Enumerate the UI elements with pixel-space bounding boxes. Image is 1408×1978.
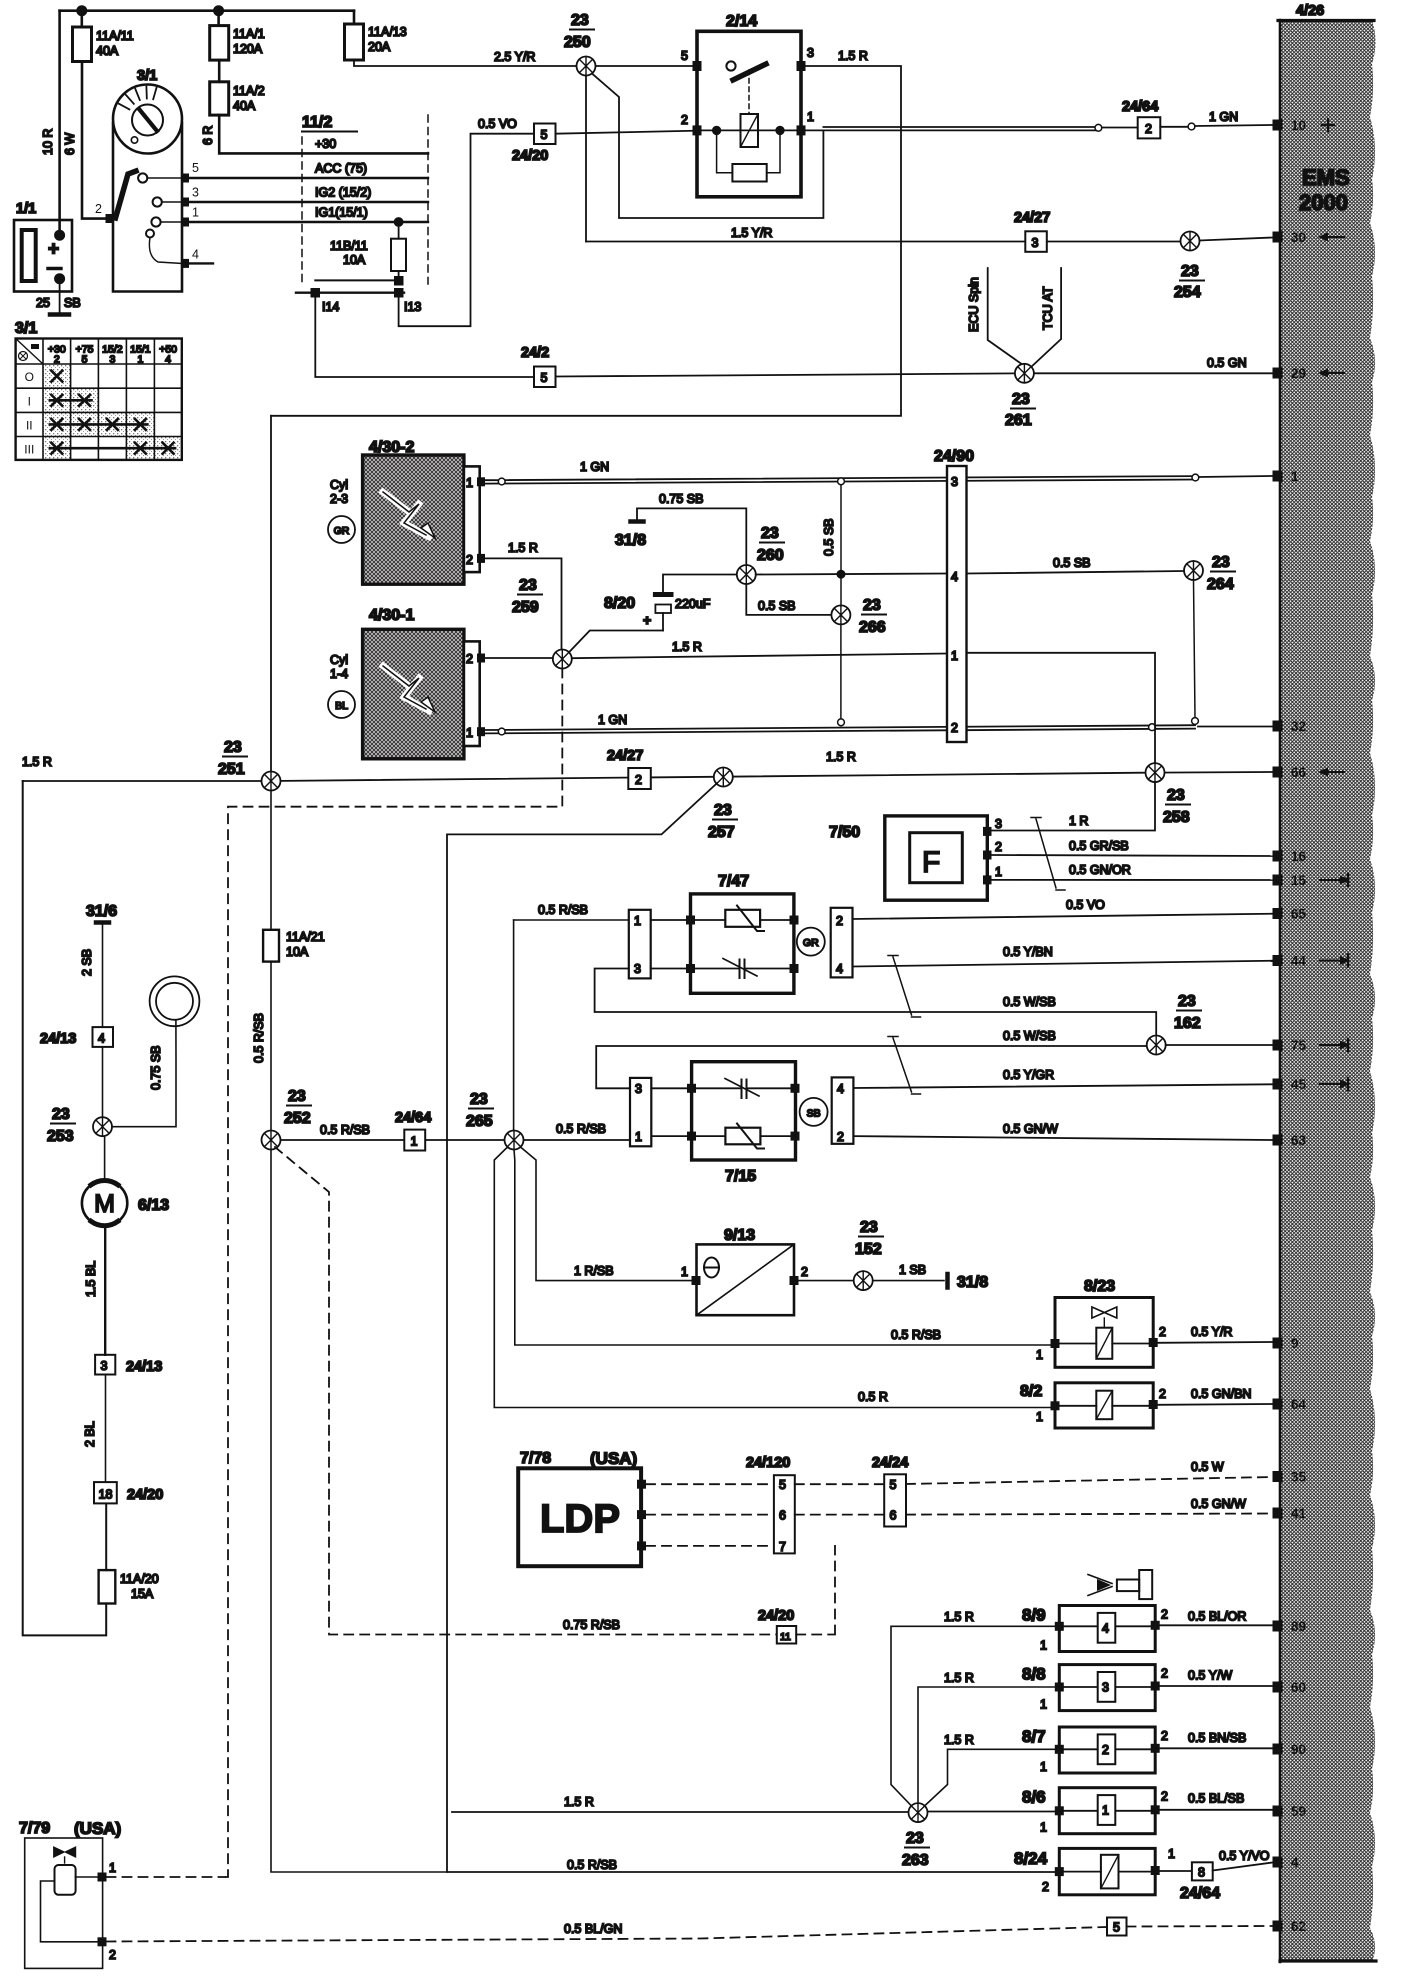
svg-text:10A: 10A (343, 253, 366, 267)
svg-text:11/2: 11/2 (302, 114, 332, 131)
svg-text:23: 23 (906, 1830, 924, 1847)
dashed wires LDP to 24/120 (646, 1484, 774, 1546)
svg-text:6/13: 6/13 (138, 1197, 169, 1214)
svg-text:0.5 BL/GN: 0.5 BL/GN (564, 1922, 622, 1936)
svg-text:4: 4 (165, 354, 171, 366)
capacitor symbol in 7/15 (696, 1087, 791, 1089)
svg-text:62: 62 (1291, 1919, 1306, 1934)
svg-text:0.75 R/SB: 0.75 R/SB (563, 1618, 620, 1632)
fan wires from splice 265 down (494, 1147, 1055, 1408)
svg-text:23: 23 (1212, 554, 1230, 571)
wire 0.5 Y/GR 7/15 pin 4 to ECU pin 45 (853, 1084, 1272, 1088)
splice 23/258 (1146, 763, 1165, 782)
svg-text:23: 23 (1181, 263, 1199, 280)
svg-text:23: 23 (52, 1106, 70, 1123)
svg-text:1-4: 1-4 (330, 667, 348, 681)
svg-text:24/120: 24/120 (746, 1455, 790, 1471)
svg-text:41: 41 (1291, 1506, 1307, 1521)
svg-text:11B/11: 11B/11 (330, 239, 368, 253)
svg-text:8/6: 8/6 (1022, 1788, 1046, 1807)
svg-text:1: 1 (634, 914, 641, 928)
wire relay pin 1 to coil loop from splice 250 (592, 74, 823, 219)
fuse 11A/11 40A (81, 11, 84, 27)
svg-text:0.5 R/SB: 0.5 R/SB (567, 1858, 617, 1872)
svg-text:23: 23 (761, 525, 779, 542)
svg-text:1 GN: 1 GN (598, 713, 627, 727)
splice 23/259 (553, 650, 572, 669)
junction dots on bus (77, 6, 86, 15)
svg-text:1.5 R: 1.5 R (672, 640, 702, 654)
svg-text:18: 18 (99, 1488, 113, 1502)
svg-text:23: 23 (224, 739, 242, 756)
svg-text:2: 2 (995, 840, 1002, 854)
svg-text:258: 258 (1163, 809, 1190, 826)
svg-text:8: 8 (1198, 1866, 1205, 1880)
svg-text:90: 90 (1291, 1742, 1306, 1757)
svg-text:O: O (25, 370, 34, 384)
wire 1.5 R / fuel pump feed: splice 251 left loop down to fuse 11A/20 (23, 781, 107, 1635)
svg-text:0.5 GN/W: 0.5 GN/W (1191, 1497, 1246, 1511)
splice 23/253 (93, 1117, 112, 1136)
svg-text:2: 2 (1161, 1729, 1168, 1743)
svg-text:10A: 10A (286, 945, 309, 959)
svg-text:1: 1 (1040, 1821, 1047, 1835)
svg-text:265: 265 (466, 1113, 493, 1130)
svg-text:4: 4 (1102, 1622, 1109, 1636)
fuse 11A/1 120A (217, 11, 220, 26)
svg-text:32: 32 (1291, 719, 1306, 734)
wire 6 W fuse to ignition switch pin 2 (82, 62, 107, 219)
svg-text:2: 2 (466, 652, 473, 666)
svg-text:0.75 SB: 0.75 SB (659, 492, 703, 506)
svg-text:250: 250 (564, 34, 591, 51)
svg-text:7/79: 7/79 (19, 1820, 50, 1837)
splice 23/257 (714, 768, 733, 787)
svg-text:0.5 R/SB: 0.5 R/SB (252, 1013, 266, 1063)
svg-text:23: 23 (714, 802, 732, 819)
svg-text:0.5 Y/R: 0.5 Y/R (1191, 1325, 1232, 1339)
svg-text:(USA): (USA) (590, 1449, 637, 1468)
wire 1 SB 9/13 pin 2 to ground 31/8 via splice 23/152 (799, 1280, 945, 1282)
svg-text:2: 2 (95, 202, 102, 216)
wire 2.5 Y/R fuse 11A/13 to splice 23/250 (354, 60, 577, 66)
wire 1.5 R coil 4/30-2 pin 2 to splice 23/259 (485, 558, 562, 649)
fuse 11A/21 10A on 0.5 R/SB drop (270, 791, 272, 930)
svg-text:1 SB: 1 SB (899, 1263, 926, 1277)
capacitor symbol in 7/47 (695, 968, 790, 970)
svg-text:1.5 R: 1.5 R (944, 1671, 974, 1685)
svg-text:4: 4 (951, 570, 958, 584)
wire 0.5 Y/BN 7/47 pin 4 to ECU pin 44 (853, 961, 1273, 967)
svg-text:5: 5 (681, 49, 688, 63)
dashed ignition pulse net from splice 23/259 to 7/79 pin 1 (225, 669, 563, 1878)
wire 0.5 R/SB from 23/257 down to 7/47 pin 1 and on to 8/24 (447, 783, 1055, 1872)
connector 24/13 pin 3 box (95, 1355, 115, 1375)
svg-text:0.5 SB: 0.5 SB (758, 599, 796, 613)
svg-text:SB: SB (64, 296, 81, 310)
svg-text:40A: 40A (96, 44, 119, 58)
svg-text:23: 23 (860, 1219, 878, 1236)
svg-text:31/8: 31/8 (615, 532, 646, 549)
svg-text:BL: BL (335, 700, 348, 712)
wire 1.5 R splice 259 to 24/90 pin 1 (572, 654, 947, 659)
svg-text:5: 5 (779, 1478, 786, 1492)
svg-text:1: 1 (1168, 1847, 1175, 1861)
wire splice 250 to relay pin 5 (596, 65, 693, 67)
svg-text:0.5 BL/SB: 0.5 BL/SB (1188, 1792, 1244, 1806)
svg-text:2: 2 (635, 773, 642, 787)
svg-text:1: 1 (635, 1130, 642, 1144)
ECU control module 4/26 EMS 2000 hatched band (1280, 20, 1376, 1962)
svg-text:1 R: 1 R (1069, 814, 1088, 828)
connector 24/13 pin 4 box (93, 1027, 114, 1047)
svg-text:2: 2 (837, 1130, 844, 1144)
svg-text:1.5 R: 1.5 R (826, 750, 856, 764)
connector 24/64 pin 8 box and wire 0.5 Y/VO to ECU pin 4 (1160, 1870, 1192, 1872)
svg-text:11A/2: 11A/2 (233, 84, 265, 98)
svg-text:0.5 R/SB: 0.5 R/SB (538, 903, 588, 917)
svg-text:EMS: EMS (1302, 165, 1350, 190)
svg-text:0.5 W: 0.5 W (1191, 1460, 1224, 1474)
svg-text:5: 5 (82, 354, 88, 366)
svg-text:24/20: 24/20 (512, 148, 548, 164)
dashed 0.75 R/SB from splice 23/252 to 24/20 pin 11 (275, 1147, 777, 1635)
svg-text:63: 63 (1291, 1133, 1307, 1148)
svg-text:IG2 (15/2): IG2 (15/2) (315, 186, 371, 200)
ECU pin terminals on band edge (1273, 118, 1351, 1934)
0.5 SB shield drain vertical (840, 485, 842, 719)
svg-text:TCU AT: TCU AT (1041, 286, 1055, 330)
svg-text:30: 30 (1291, 230, 1306, 245)
wire 1.5 R vertical from relay loop down to splice 23/251 (270, 416, 272, 772)
svg-text:4/26: 4/26 (1296, 3, 1324, 19)
svg-text:64: 64 (1291, 1397, 1307, 1412)
svg-text:3: 3 (807, 46, 814, 60)
dashed wire 0.5 W to ECU pin 35 (906, 1477, 1273, 1484)
svg-text:4: 4 (1291, 1855, 1299, 1870)
svg-text:6: 6 (890, 1509, 897, 1523)
svg-text:11A/20: 11A/20 (120, 1572, 159, 1586)
svg-text:Cyl: Cyl (330, 478, 348, 492)
svg-text:1.5 R: 1.5 R (944, 1733, 974, 1747)
svg-text:4: 4 (836, 962, 843, 976)
svg-text:152: 152 (855, 1241, 882, 1258)
svg-text:0.5 Y/GR: 0.5 Y/GR (1003, 1068, 1054, 1082)
svg-text:5: 5 (192, 161, 199, 175)
svg-text:0.5 Y/BN: 0.5 Y/BN (1003, 945, 1053, 959)
svg-text:1: 1 (1102, 1804, 1109, 1818)
svg-text:40A: 40A (233, 99, 256, 113)
svg-text:7: 7 (779, 1540, 786, 1554)
svg-text:162: 162 (1174, 1015, 1201, 1032)
svg-text:0.5 GN/W: 0.5 GN/W (1003, 1122, 1058, 1136)
thermistor symbol in 7/47 (695, 919, 790, 921)
fuse 11A/13 20A (353, 11, 356, 24)
connector 24/20 pin 11 box (777, 1626, 796, 1644)
svg-text:3: 3 (635, 1082, 642, 1096)
svg-text:IG1(15/1): IG1(15/1) (315, 206, 368, 220)
connector 24/90 (947, 466, 967, 742)
svg-text:1.5 Y/R: 1.5 Y/R (731, 226, 772, 240)
top supply bus wire (60, 9, 354, 12)
svg-text:23: 23 (1178, 993, 1196, 1010)
svg-text:24/64: 24/64 (395, 1110, 431, 1126)
svg-text:2: 2 (1159, 1387, 1166, 1401)
connector 24/20 pin 18 box (94, 1482, 117, 1503)
svg-text:266: 266 (859, 619, 886, 636)
wire 0.5 W/SB 7/47 pin 3 loop to splice 23/162 (595, 969, 1157, 1036)
svg-text:7/15: 7/15 (725, 1168, 756, 1185)
relay resistor (732, 164, 766, 182)
svg-text:2/14: 2/14 (726, 13, 757, 30)
splice 23/264 drop to GN line (1184, 561, 1203, 580)
svg-text:1: 1 (681, 1265, 688, 1279)
svg-text:Cyl: Cyl (330, 653, 348, 667)
connector 24/2 pin 5 box (534, 367, 556, 388)
wire 0.5 GN/W 7/15 pin 2 to ECU pin 63 (853, 1136, 1272, 1140)
svg-text:2: 2 (1161, 1790, 1168, 1804)
svg-text:2: 2 (1161, 1667, 1168, 1681)
svg-text:31/6: 31/6 (86, 903, 117, 920)
wire 0.5 GN : I14 line through 24/2 to splice 23/261 and ECU pin 29 (556, 373, 1273, 376)
crossing slash mark (888, 956, 921, 1018)
motor M 6/13 (82, 1180, 127, 1225)
splice 23/260 (737, 565, 756, 584)
svg-text:1: 1 (411, 1135, 418, 1149)
svg-text:M: M (94, 1190, 115, 1218)
svg-text:35: 35 (1291, 1470, 1307, 1485)
svg-text:0.5 W/SB: 0.5 W/SB (1003, 1029, 1056, 1043)
fan from splice 263 up to injector feeds (891, 1626, 1059, 1806)
svg-text:44: 44 (1291, 954, 1307, 969)
svg-text:24/13: 24/13 (126, 1359, 162, 1375)
svg-text:252: 252 (284, 1110, 311, 1127)
svg-text:1: 1 (807, 110, 814, 124)
svg-text:8/2: 8/2 (1020, 1383, 1042, 1400)
relay switch symbol (726, 61, 735, 70)
svg-text:15: 15 (1291, 873, 1307, 888)
switch output wires ACC IG2 IG1 (189, 177, 428, 179)
svg-text:II: II (26, 419, 33, 433)
svg-text:251: 251 (218, 761, 245, 778)
wire battery plus to bus 10 R (58, 11, 61, 233)
svg-text:0.5 R/SB: 0.5 R/SB (320, 1123, 370, 1137)
crossing slash mark (1031, 818, 1065, 891)
svg-text:1: 1 (192, 206, 199, 220)
svg-text:8/24: 8/24 (1014, 1849, 1048, 1868)
svg-text:10 R: 10 R (41, 129, 55, 155)
svg-text:120A: 120A (233, 42, 263, 56)
wire 1.5 Y/R splice 250 down to Y/R bus (585, 76, 587, 242)
svg-text:3: 3 (1032, 236, 1039, 250)
svg-text:F: F (922, 846, 940, 879)
svg-text:4/30-1: 4/30-1 (369, 607, 414, 624)
svg-text:260: 260 (757, 547, 784, 564)
wire 1 R splice 258 to 7/50 pin 3 (991, 782, 1155, 830)
svg-text:1: 1 (1036, 1348, 1043, 1362)
wire battery minus to ground, 25 SB (59, 279, 61, 314)
svg-text:0.5 R/SB: 0.5 R/SB (556, 1122, 606, 1136)
connector 24/64 pin 1 box (404, 1130, 425, 1151)
svg-text:0.5 Y/VO: 0.5 Y/VO (1219, 1849, 1270, 1863)
svg-text:10: 10 (1291, 118, 1306, 133)
svg-text:23: 23 (863, 597, 881, 614)
connector 24/120 (774, 1475, 795, 1553)
fuse 11B/11 10A (398, 222, 400, 239)
wire 0.5 R/SB from splice 23/265 riser to 7/47 pin 1 (514, 919, 629, 921)
svg-text:0.5 SB: 0.5 SB (1053, 556, 1091, 570)
wire coil 4/30-1 pin 2 to splice 23/259 (485, 657, 553, 659)
svg-text:6 W: 6 W (63, 133, 77, 155)
svg-text:89: 89 (1291, 1619, 1306, 1634)
svg-text:0.5 VO: 0.5 VO (478, 117, 517, 131)
svg-text:2: 2 (109, 1948, 116, 1962)
wire 0.5 Y/R 8/23 pin 2 to ECU pin 9 (1158, 1341, 1273, 1344)
svg-text:1.5 R: 1.5 R (508, 541, 538, 555)
svg-text:24/27: 24/27 (607, 748, 643, 764)
svg-text:1: 1 (1036, 1410, 1043, 1424)
thermistor symbol in 7/15 (696, 1135, 791, 1137)
svg-text:9/13: 9/13 (724, 1227, 755, 1244)
switch lever (116, 171, 137, 218)
splice 23/162 (1147, 1036, 1166, 1055)
svg-text:1: 1 (1291, 469, 1299, 484)
wire 1.5 Y/R bus to ECU pin 30 (586, 238, 1273, 242)
connector 24/27 pin 3 box (1025, 231, 1047, 252)
1.5 R main bus splice 251 to ECU pin 66 (23, 772, 1273, 781)
svg-text:1.5 BL: 1.5 BL (84, 1261, 98, 1297)
svg-text:0.5 GN/BN: 0.5 GN/BN (1191, 1387, 1251, 1401)
svg-text:263: 263 (902, 1852, 929, 1869)
svg-text:7/50: 7/50 (829, 824, 860, 841)
svg-text:2: 2 (951, 721, 958, 735)
svg-text:11A/13: 11A/13 (368, 25, 407, 39)
svg-text:3/1: 3/1 (15, 320, 37, 337)
svg-text:24/20: 24/20 (758, 1608, 794, 1624)
svg-text:0.5 Y/W: 0.5 Y/W (1188, 1669, 1232, 1683)
svg-text:(USA): (USA) (74, 1819, 121, 1838)
svg-text:0.5 R: 0.5 R (858, 1390, 888, 1404)
svg-text:0.5 VO: 0.5 VO (1066, 898, 1105, 912)
svg-text:2: 2 (54, 354, 60, 366)
svg-text:1: 1 (951, 649, 958, 663)
svg-text:0.5 R/SB: 0.5 R/SB (891, 1328, 941, 1342)
svg-text:2: 2 (681, 113, 688, 127)
svg-text:23: 23 (1012, 391, 1030, 408)
svg-text:2: 2 (1042, 1880, 1049, 1894)
horn/pump with 0.75 SB lead (150, 976, 200, 1026)
svg-text:5: 5 (890, 1478, 897, 1492)
svg-text:253: 253 (47, 1128, 74, 1145)
svg-text:8/20: 8/20 (604, 595, 635, 612)
svg-text:+: + (643, 612, 651, 628)
svg-text:0.5 BL/OR: 0.5 BL/OR (1188, 1610, 1246, 1624)
svg-text:3: 3 (634, 962, 641, 976)
wire I14 down to 0.5 GN line (315, 297, 535, 377)
svg-text:1/1: 1/1 (16, 201, 36, 217)
wire 0.5 W/SB 7/15 pin 3 loop through splice 162 to ECU pin 75 (596, 1045, 1272, 1088)
svg-text:4: 4 (192, 248, 199, 262)
svg-text:0.5 GN/OR: 0.5 GN/OR (1069, 863, 1131, 877)
switch contacts (138, 173, 147, 182)
fuse 11A/20 15A (99, 1570, 116, 1603)
splice 23/266 (831, 605, 850, 624)
svg-text:7/78: 7/78 (520, 1450, 551, 1467)
wire 0.5 SB splice 260 to splice 23/266 (746, 584, 831, 615)
svg-text:0.5 GR/SB: 0.5 GR/SB (1069, 839, 1129, 853)
svg-text:+: + (48, 239, 59, 260)
svg-text:264: 264 (1207, 576, 1234, 593)
svg-text:4: 4 (98, 1032, 105, 1046)
svg-text:0.5 GN: 0.5 GN (1207, 356, 1247, 370)
1 GN shielded wire relay to ECU pin 10 (823, 126, 1098, 128)
svg-text:5: 5 (541, 371, 548, 385)
svg-text:24/64: 24/64 (1180, 1885, 1220, 1902)
svg-text:1: 1 (109, 1861, 116, 1875)
svg-text:1: 1 (137, 354, 143, 366)
svg-text:1: 1 (1040, 1639, 1047, 1653)
svg-text:I13: I13 (404, 300, 421, 314)
svg-text:8/8: 8/8 (1022, 1665, 1046, 1684)
1 GN shielded wire coil 4/30-1 pin 1 to ECU pin 32 (485, 725, 1195, 730)
dashed wire 0.5 GN/W to ECU pin 41 (906, 1514, 1273, 1515)
dashed wire 0.5 BL/GN 7/79 pin 2 to ECU pin 62 via connector 5 (107, 1926, 1273, 1942)
svg-text:29: 29 (1291, 366, 1306, 381)
svg-text:8/7: 8/7 (1022, 1727, 1046, 1746)
svg-text:3: 3 (192, 186, 199, 200)
svg-text:LDP: LDP (540, 1497, 620, 1541)
wire 0.5 VO 7/47 pin 2 to ECU pin 65 (853, 914, 1273, 919)
wire I13 to relay coil 0.5 VO (399, 134, 534, 327)
svg-text:1.5 R: 1.5 R (838, 49, 868, 63)
svg-text:220uF: 220uF (675, 597, 711, 611)
svg-text:23: 23 (519, 577, 537, 594)
wire 0.5 R/SB splice 23/252 to 7/15 pin 1 through 24/64 and 23/265 (281, 1139, 631, 1141)
svg-text:0.5 BN/SB: 0.5 BN/SB (1188, 1731, 1246, 1745)
svg-text:3: 3 (101, 1359, 108, 1373)
svg-text:23: 23 (571, 12, 589, 29)
splice 23/251 (262, 772, 281, 791)
svg-text:1 GN: 1 GN (1209, 110, 1238, 124)
svg-text:0.75 SB: 0.75 SB (149, 1046, 163, 1090)
svg-text:9: 9 (1291, 1336, 1299, 1351)
svg-text:66: 66 (1291, 765, 1307, 780)
wire 1.5 R feed to injectors via splice 23/263 (452, 1811, 1059, 1814)
svg-text:24/90: 24/90 (934, 448, 974, 465)
svg-text:1: 1 (1040, 1760, 1047, 1774)
svg-text:257: 257 (708, 824, 735, 841)
terminals I14 I13 (315, 279, 398, 281)
svg-text:11: 11 (780, 1631, 791, 1643)
svg-text:2.5 Y/R: 2.5 Y/R (494, 50, 535, 64)
svg-text:2 SB: 2 SB (80, 949, 94, 976)
svg-text:60: 60 (1291, 1680, 1306, 1695)
splice 23/265 with fan to verticals (505, 1131, 524, 1150)
svg-text:2: 2 (836, 914, 843, 928)
svg-text:5: 5 (541, 128, 548, 142)
svg-text:2: 2 (1159, 1325, 1166, 1339)
svg-text:45: 45 (1291, 1077, 1307, 1092)
svg-text:2000: 2000 (1299, 190, 1348, 215)
svg-text:1: 1 (466, 476, 473, 490)
svg-text:2: 2 (466, 553, 473, 567)
svg-text:3: 3 (995, 817, 1002, 831)
svg-text:3: 3 (109, 354, 115, 366)
svg-text:8/9: 8/9 (1022, 1606, 1046, 1625)
svg-text:15A: 15A (131, 1587, 154, 1601)
splice 23/252 (262, 1131, 281, 1150)
wire 0.5 GN/OR 7/50 pin 1 to ECU pin 15 (992, 879, 1273, 881)
